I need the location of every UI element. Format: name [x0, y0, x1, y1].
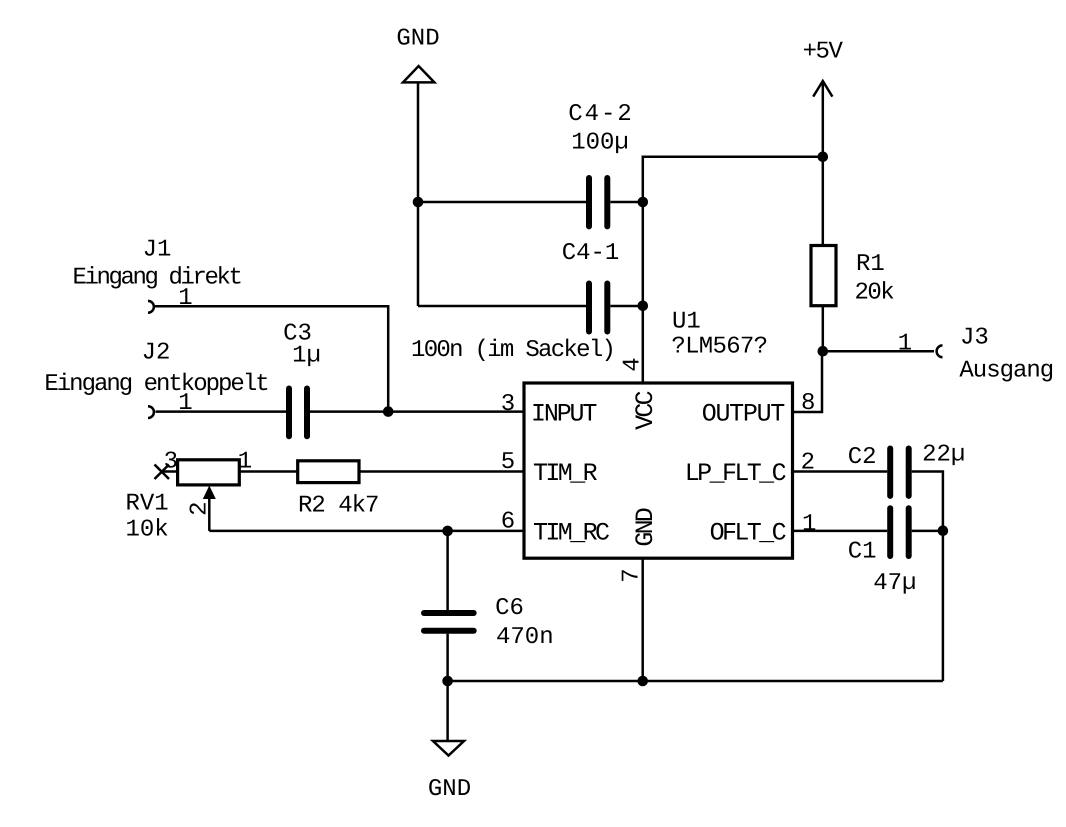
- svg-text:3: 3: [164, 448, 178, 475]
- svg-text:8: 8: [801, 390, 815, 417]
- svg-text:C4-1: C4-1: [562, 240, 620, 267]
- svg-text:INPUT: INPUT: [531, 400, 597, 429]
- svg-text:U1: U1: [672, 309, 701, 336]
- svg-text:4: 4: [620, 357, 647, 371]
- svg-text:1: 1: [178, 390, 192, 417]
- svg-text:R1: R1: [856, 251, 885, 278]
- svg-text:GND: GND: [396, 26, 439, 53]
- svg-text:100n (im Sackel): 100n (im Sackel): [411, 337, 614, 364]
- svg-text:100µ: 100µ: [571, 130, 629, 157]
- svg-text:1: 1: [898, 331, 912, 358]
- svg-text:TIM_RC: TIM_RC: [533, 518, 609, 547]
- svg-text:OUTPUT: OUTPUT: [702, 400, 786, 429]
- svg-text:5: 5: [501, 449, 515, 476]
- svg-text:6: 6: [501, 509, 515, 536]
- svg-text:GND: GND: [631, 508, 660, 546]
- svg-text:Ausgang: Ausgang: [959, 357, 1053, 384]
- svg-text:?LM567?: ?LM567?: [671, 334, 767, 361]
- svg-text:20k: 20k: [855, 280, 895, 307]
- svg-text:LP_FLT_C: LP_FLT_C: [685, 459, 786, 488]
- svg-text:3: 3: [501, 391, 515, 418]
- svg-text:OFLT_C: OFLT_C: [710, 518, 786, 547]
- svg-text:2: 2: [187, 501, 214, 515]
- svg-text:1: 1: [238, 448, 252, 475]
- svg-text:J2: J2: [142, 340, 171, 367]
- svg-text:J1: J1: [143, 237, 172, 264]
- svg-text:GND: GND: [428, 776, 471, 803]
- svg-text:2: 2: [801, 450, 815, 477]
- svg-text:1µ: 1µ: [292, 343, 321, 370]
- svg-text:1: 1: [802, 511, 816, 538]
- svg-text:47µ: 47µ: [873, 570, 916, 597]
- svg-text:RV1: RV1: [126, 491, 169, 518]
- svg-text:R2 4k7: R2 4k7: [298, 493, 378, 520]
- svg-text:TIM_R: TIM_R: [533, 459, 598, 488]
- svg-text:C4-2: C4-2: [568, 101, 634, 128]
- svg-text:C2: C2: [848, 444, 877, 471]
- svg-text:470n: 470n: [496, 624, 554, 651]
- svg-text:1: 1: [178, 285, 192, 312]
- svg-text:7: 7: [619, 568, 646, 582]
- svg-text:C1: C1: [848, 539, 877, 566]
- svg-text:Eingang entkoppelt: Eingang entkoppelt: [44, 371, 267, 398]
- svg-text:+5V: +5V: [803, 39, 844, 66]
- svg-text:J3: J3: [960, 324, 989, 351]
- svg-text:22µ: 22µ: [922, 441, 965, 468]
- svg-text:VCC: VCC: [631, 391, 660, 429]
- svg-text:Eingang direkt: Eingang direkt: [72, 265, 240, 292]
- svg-text:10k: 10k: [126, 517, 169, 544]
- svg-text:C6: C6: [495, 595, 524, 622]
